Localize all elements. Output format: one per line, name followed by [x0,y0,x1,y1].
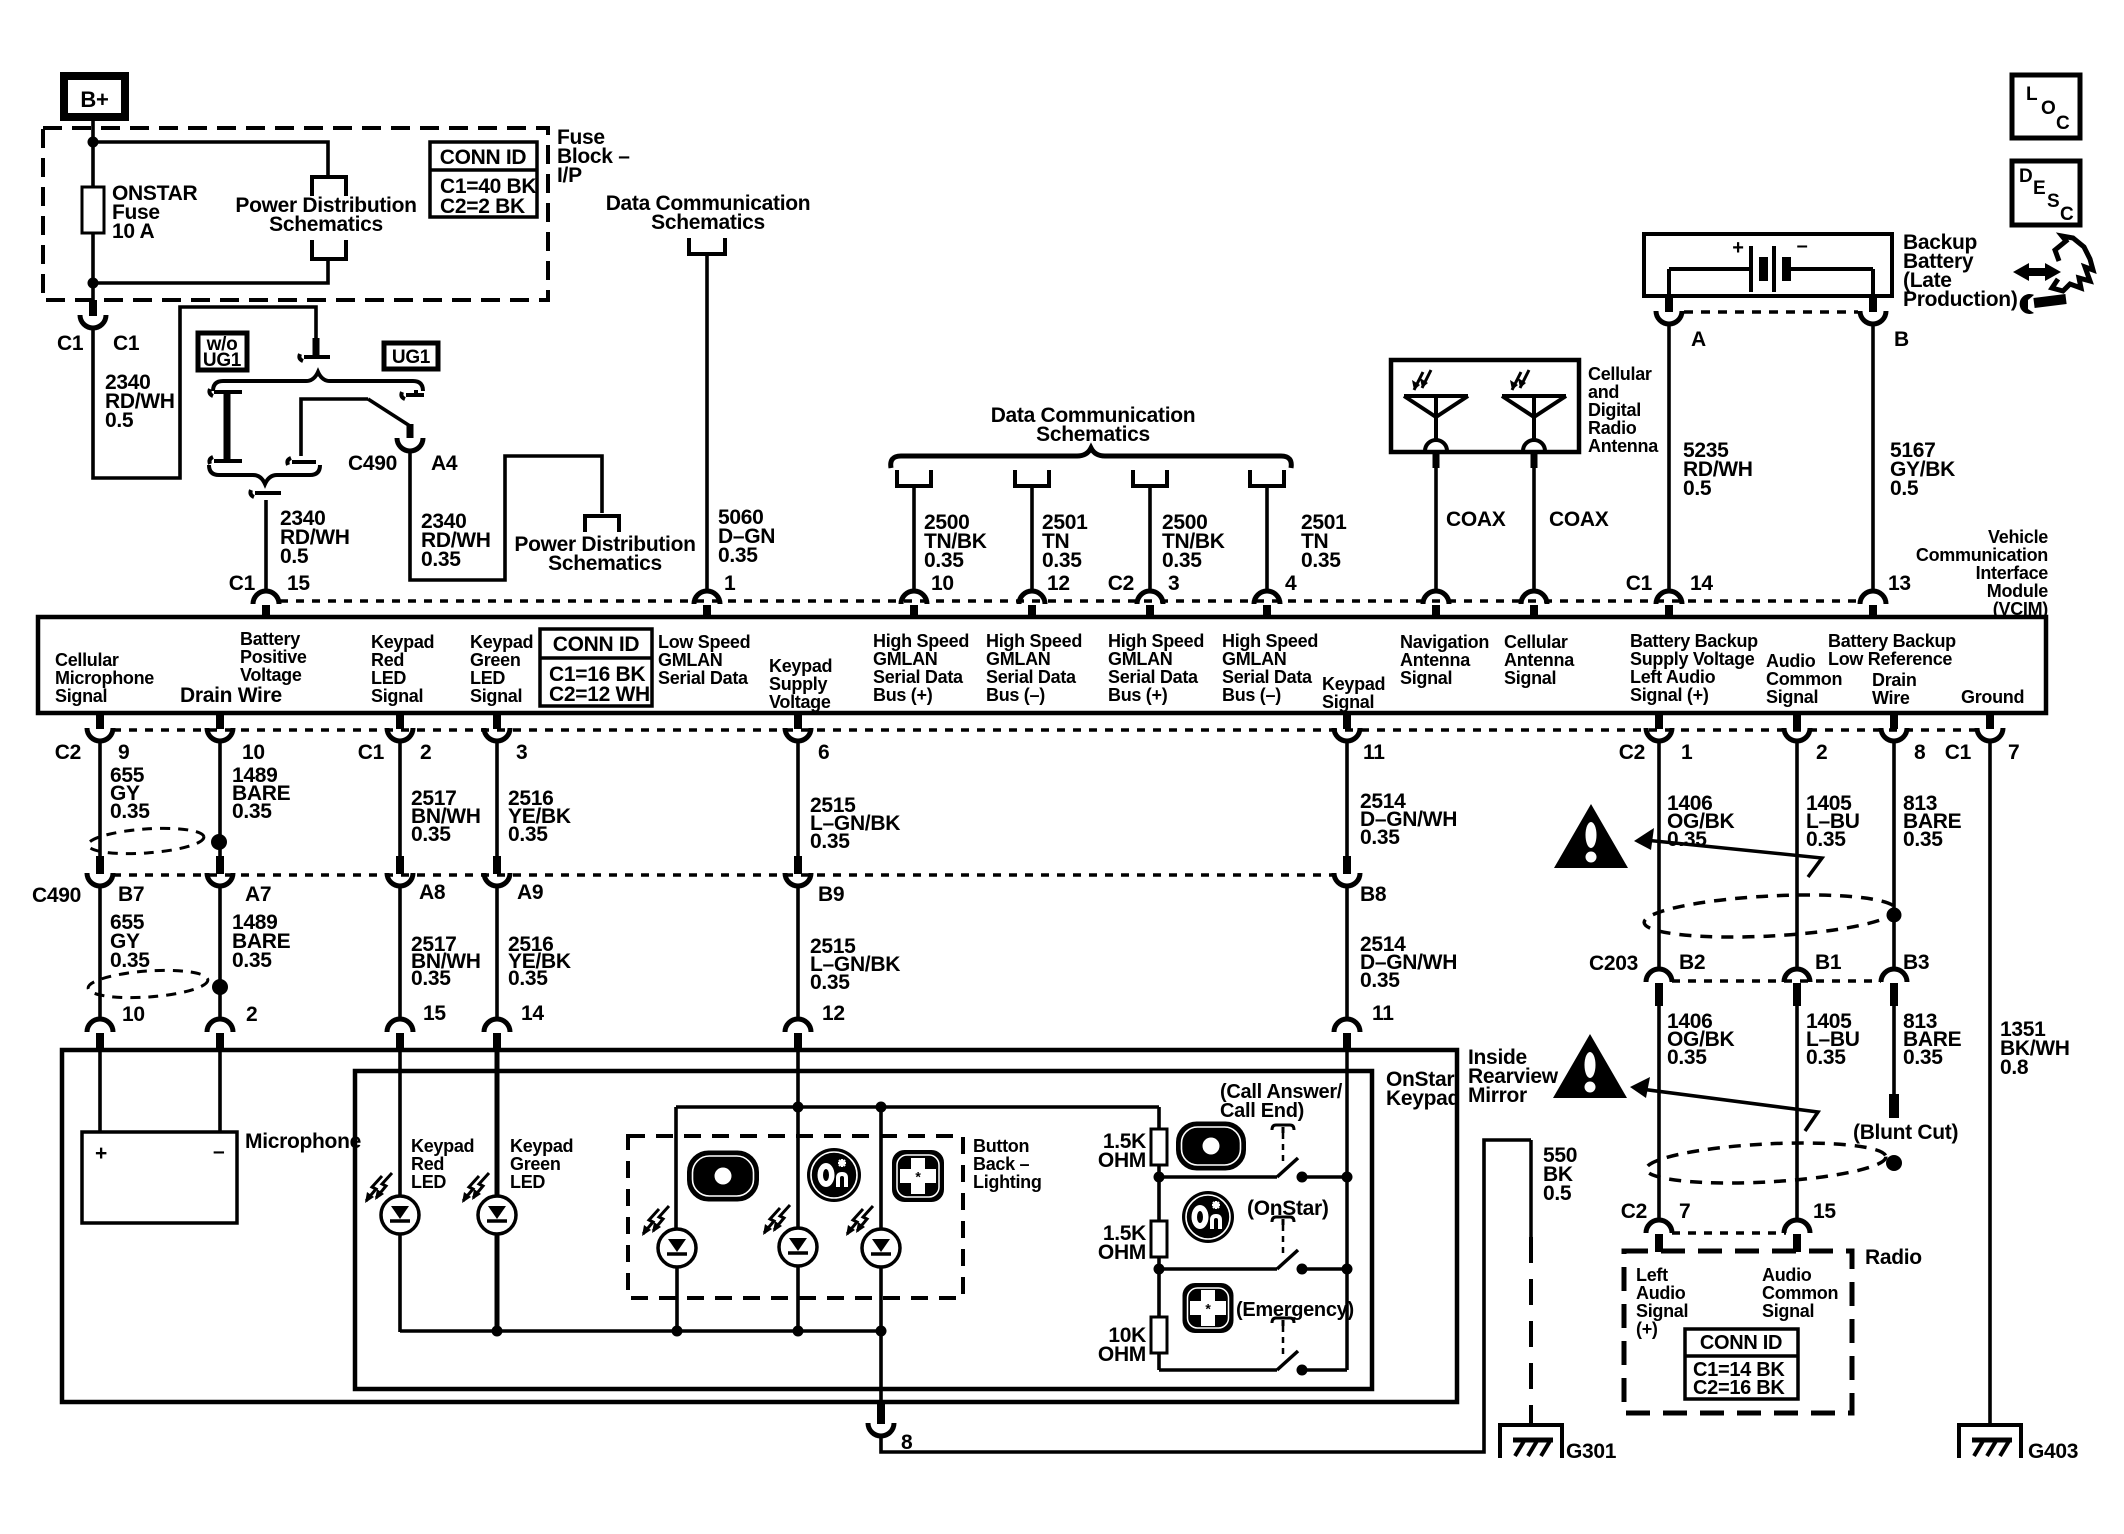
shield junction radio [1886,1155,1902,1171]
UG1 branch top connector [401,390,424,399]
wire row2-row3 x=400 [398,885,402,1019]
antenna box Cellular and Digital Radio [1391,360,1579,452]
connector C490 x=400 [396,856,404,874]
DESC reference box [2012,161,2080,225]
svg-text:Antenna: Antenna [1588,436,1659,456]
svg-text:B: B [1894,328,1909,351]
off-page symbol GMLAN drop 1 [897,470,931,486]
svg-text:Signal: Signal [1504,668,1556,688]
svg-text:Drain: Drain [1872,670,1917,690]
svg-text:(VCIM): (VCIM) [1993,599,2048,619]
svg-text:C203: C203 [1589,952,1638,975]
lightning arrows LED2 [764,1208,780,1233]
svg-text:Button: Button [973,1136,1029,1156]
wire R1 to junction [1157,1165,1161,1177]
svg-text:0.35: 0.35 [110,949,150,972]
svg-text:0.35: 0.35 [1301,549,1341,572]
svg-text:LED: LED [510,1172,545,1192]
svg-text:Signal: Signal [1762,1301,1814,1321]
svg-text:8: 8 [901,1431,913,1454]
svg-text:C2=16 BK: C2=16 BK [1693,1377,1785,1399]
svg-text:1: 1 [724,572,736,595]
resistor R1 1.5K [1151,1129,1167,1165]
svg-text:Common: Common [1766,669,1842,689]
OnStar keypad inner box [355,1071,1372,1389]
off-page symbol GMLAN drop 4 [1250,470,1284,486]
wire R3 to switch3 [1157,1353,1161,1370]
junction pin12 top bus [793,1102,804,1113]
svg-text:Ground: Ground [1961,687,2024,707]
svg-text:+: + [95,1142,107,1165]
wire switch3 to bus [1302,1368,1347,1372]
svg-text:C2: C2 [1621,1200,1647,1223]
fuse F1 ONSTAR 10A [82,187,104,233]
wire keypad red LED feed [398,1050,402,1196]
svg-text:0.35: 0.35 [1042,549,1082,572]
svg-text:10: 10 [931,572,954,595]
svg-text:11: 11 [1363,741,1385,764]
svg-text:Keypad: Keypad [470,632,533,652]
wire bus to resistor chain [1157,1107,1161,1129]
shield drain junction upper [211,834,227,850]
svg-text:GMLAN: GMLAN [658,650,723,670]
svg-text:Serial Data: Serial Data [986,667,1077,687]
svg-text:12: 12 [1047,572,1070,595]
svg-text:Bus (–): Bus (–) [1222,685,1281,705]
svg-text:7: 7 [1679,1200,1690,1223]
resistor R2 1.5K [1151,1221,1167,1257]
off-page symbol GMLAN drop 3 [1133,470,1167,486]
CONN ID box VCIM [540,629,652,706]
callout arrow upper [1634,828,1654,850]
connector row1 pin x=497 [493,711,501,729]
svg-text:C1: C1 [229,572,256,595]
svg-text:Serial Data: Serial Data [1222,667,1313,687]
svg-text:C2: C2 [1619,741,1645,764]
wire pin12 feed [796,1050,800,1228]
wire GMLAN drop 3 [1148,486,1152,591]
svg-text:Antenna: Antenna [1400,650,1471,670]
svg-text:0.35: 0.35 [1162,549,1202,572]
wire junction to R3 [1157,1269,1161,1317]
svg-text:Audio: Audio [1636,1283,1686,1303]
connector C490 x=1347 [1343,856,1351,874]
svg-text:LED: LED [371,668,406,688]
svg-text:C2=2 BK: C2=2 BK [440,195,525,218]
svg-text:Schematics: Schematics [548,552,662,575]
wire 5167 GY/BK [1871,324,1875,591]
button emergency [1183,1284,1233,1333]
svg-text:*: * [915,1169,921,1185]
backlight dashed box [628,1136,963,1298]
svg-text:0.35: 0.35 [1360,969,1400,992]
connector row1 pin x=100 [96,711,104,729]
svg-text:Left Audio: Left Audio [1630,667,1716,687]
svg-text:Cellular: Cellular [55,650,119,670]
connector radio x=1797 [1784,1220,1810,1233]
backlight LED3 [862,1229,900,1267]
connector keypad pin 8 [877,1402,885,1424]
wire GMLAN drop 2 [1030,486,1034,591]
svg-text:+: + [1732,237,1743,259]
svg-text:0.35: 0.35 [1360,826,1400,849]
svg-text:UG1: UG1 [392,347,431,368]
connector C490 x=100 [96,856,104,874]
wire switch1 row [1159,1175,1277,1179]
CONN ID box radio [1685,1329,1798,1399]
resistor R3 10K [1151,1317,1167,1353]
svg-text:Mirror: Mirror [1468,1084,1527,1107]
connector C203 x=1894 [1881,969,1907,982]
svg-text:Production): Production) [1903,288,2018,311]
svg-text:Bus (+): Bus (+) [873,685,933,705]
svg-text:A: A [1691,328,1706,351]
svg-text:0.35: 0.35 [1806,1046,1846,1069]
wire 5060 D-GN [705,254,709,591]
shield drain junction lower [212,979,228,995]
keypad red LED [381,1196,419,1234]
wire 2340 RD/WH jog to splice [93,307,316,478]
svg-text:Navigation: Navigation [1400,632,1489,652]
wire 1405 C203-radio [1795,1006,1799,1221]
brace data communication [891,448,1292,468]
svg-text:Battery: Battery [240,629,300,649]
svg-text:7: 7 [2008,741,2019,764]
svg-text:10: 10 [242,741,265,764]
junction keypad bus 1 [1342,1172,1353,1183]
UG1 tap lower connector [287,458,316,465]
svg-text:GMLAN: GMLAN [1222,649,1287,669]
svg-text:Common: Common [1762,1283,1838,1303]
svg-text:13: 13 [1888,572,1911,595]
dashed connector line radio [1672,1231,1786,1235]
svg-text:High Speed: High Speed [873,631,969,651]
svg-text:Cellular: Cellular [1588,364,1652,384]
wire GMLAN drop 1 [912,486,916,591]
svg-text:14: 14 [1690,572,1713,595]
svg-text:Supply Voltage: Supply Voltage [1630,649,1755,669]
svg-text:0.5: 0.5 [1683,477,1712,500]
svg-text:3: 3 [516,741,527,764]
svg-text:Vehicle: Vehicle [1988,527,2048,547]
LED return bus [400,1329,881,1333]
svg-text:Lighting: Lighting [973,1172,1042,1192]
svg-text:11: 11 [1372,1002,1394,1025]
svg-text:Antenna: Antenna [1504,650,1575,670]
svg-text:C1: C1 [113,332,140,355]
wire power-distribution return [93,259,328,283]
antenna lead 2 [1531,453,1538,468]
svg-text:Schematics: Schematics [269,213,383,236]
wire row1-row2 x=798 [796,741,800,856]
svg-text:Wire: Wire [1872,688,1910,708]
junction R1 bottom [1154,1172,1165,1183]
svg-text:0.35: 0.35 [1903,828,1943,851]
svg-text:C1: C1 [57,332,84,355]
svg-text:(Blunt Cut): (Blunt Cut) [1853,1121,1958,1144]
connector C490 A4 [407,424,414,438]
svg-text:Signal: Signal [1766,687,1818,707]
svg-text:0.35: 0.35 [1806,828,1846,851]
shield ellipse radio pair [1645,1138,1887,1189]
wire 550 BK dashed to ground [1529,1140,1533,1237]
svg-text:A8: A8 [419,881,446,904]
svg-text:Positive: Positive [240,647,307,667]
svg-text:–: – [1797,235,1808,257]
dashed connector line C203 [1672,979,1881,983]
backlight LED2 [779,1228,817,1266]
svg-text:Radio: Radio [1865,1246,1922,1269]
connector A backup battery [1665,296,1673,312]
lightning arrows LED1 [643,1209,659,1234]
connector VCIM top pin x=1534 [1521,591,1547,604]
wire 2340 RD/WH A4 loop to power distribution [410,450,602,580]
svg-text:High Speed: High Speed [986,631,1082,651]
svg-text:and: and [1588,382,1619,402]
svg-text:C2=12 WH: C2=12 WH [549,683,650,706]
svg-text:(Emergency): (Emergency) [1236,1299,1354,1321]
svg-text:Drain Wire: Drain Wire [180,684,282,707]
connector row1 pin x=1347 [1343,711,1351,729]
backlight button onstar [807,1148,861,1202]
svg-text:LED: LED [470,668,505,688]
svg-text:Green: Green [470,650,521,670]
svg-text:Left: Left [1636,1265,1668,1285]
splice bottom connector [250,490,281,497]
connector row1 pin x=1659 [1655,711,1663,729]
junction green LED bus [492,1326,503,1337]
svg-text:Bus (+): Bus (+) [1108,685,1168,705]
connector device x=100 [87,1019,113,1032]
connector C203 x=1659 [1646,969,1672,982]
shield ellipse microphone (upper) [87,825,204,857]
switch emergency [1277,1351,1298,1370]
off-page symbol Power Distribution Schematics (A4) [585,516,619,532]
wire fuse-top to power-distribution tap [93,142,328,176]
svg-text:Serial Data: Serial Data [1108,667,1199,687]
svg-text:Audio: Audio [1766,651,1816,671]
svg-text:Signal: Signal [470,686,522,706]
svg-text:15: 15 [287,572,310,595]
svg-text:0.35: 0.35 [1903,1046,1943,1069]
option box UG1 [384,343,438,369]
svg-text:0.35: 0.35 [232,949,272,972]
connector VCIM top pin x=1669 [1656,591,1682,604]
svg-text:CONN ID: CONN ID [440,146,527,169]
svg-text:0.35: 0.35 [1667,828,1707,851]
svg-text:L: L [2026,84,2038,105]
wire LED1 to bus [675,1267,679,1332]
warning triangle lower [1553,1034,1627,1098]
wire junction to R2 [1157,1177,1161,1221]
svg-text:C490: C490 [348,452,397,475]
wire switch2 to bus [1302,1267,1347,1271]
node B+ battery feed terminal [64,76,125,117]
junction fuse top [88,137,99,148]
svg-text:Radio: Radio [1588,418,1637,438]
svg-text:Signal (+): Signal (+) [1630,685,1709,705]
svg-text:C1: C1 [1626,572,1653,595]
svg-text:A7: A7 [245,883,271,906]
svg-text:G301: G301 [1566,1440,1617,1463]
wire green LED to bus [495,1234,500,1332]
connector VCIM top pin x=707 [694,591,720,604]
svg-text:9: 9 [118,741,129,764]
svg-text:High Speed: High Speed [1222,631,1318,651]
ground G403 [1959,1425,2021,1458]
svg-text:OHM: OHM [1098,1343,1146,1366]
svg-text:0.8: 0.8 [2000,1056,2029,1079]
dashed connector line A-B [1684,310,1858,314]
microphone box [82,1132,237,1223]
svg-text:0.35: 0.35 [110,800,150,823]
connector VCIM top pin x=1267 [1254,591,1280,604]
svg-text:3: 3 [1168,572,1179,595]
svg-text:G403: G403 [2028,1440,2078,1463]
svg-text:10 A: 10 A [112,220,155,243]
shield junction 813 upper [1887,908,1902,923]
svg-text:C: C [2056,113,2070,134]
svg-text:Battery Backup: Battery Backup [1630,631,1758,651]
svg-text:0.35: 0.35 [421,548,461,571]
wire LED3 drop [879,1107,883,1229]
antenna symbol 2 [1502,394,1566,398]
svg-text:Signal: Signal [371,686,423,706]
connector C490 x=497 [493,856,501,874]
svg-text:8: 8 [1914,741,1926,764]
svg-text:OHM: OHM [1098,1241,1146,1264]
svg-text:Audio: Audio [1762,1265,1812,1285]
svg-text:Back –: Back – [973,1154,1030,1174]
svg-text:Schematics: Schematics [1036,423,1150,446]
lightning arrows red LED [366,1176,382,1201]
svg-text:B3: B3 [1903,951,1929,974]
svg-text:Signal: Signal [1636,1301,1688,1321]
svg-text:Keypad: Keypad [1322,674,1385,694]
wire row2-row3 x=798 [796,885,800,1019]
junction R2 bottom [1154,1264,1165,1275]
svg-text:Digital: Digital [1588,400,1641,420]
svg-text:Microphone: Microphone [245,1130,361,1153]
wire 1406 C203-radio [1657,1006,1661,1221]
svg-text:0.35: 0.35 [508,967,548,990]
svg-text:LED: LED [411,1172,446,1192]
svg-text:C1: C1 [358,741,385,764]
wire row2-row3 x=100 [98,885,102,1019]
svg-text:2: 2 [1816,741,1827,764]
wire 813 blunt cut [1892,1006,1896,1094]
svg-text:Bus (–): Bus (–) [986,685,1045,705]
connector device x=1347 [1334,1019,1360,1032]
inline connector at splice top [313,338,320,356]
wire switch2 row [1159,1267,1277,1271]
connector B backup battery [1869,296,1877,312]
backlight button call [688,1151,759,1201]
svg-text:GMLAN: GMLAN [1108,649,1173,669]
svg-text:OHM: OHM [1098,1149,1146,1172]
svg-text:Keypad: Keypad [510,1136,573,1156]
svg-text:0.35: 0.35 [411,823,451,846]
connector C1 below fuse block [89,300,97,316]
wire mic - lead [218,1050,222,1132]
svg-text:B9: B9 [818,883,844,906]
wire 813 BARE row1-C203 [1892,741,1896,969]
junction LED2 bus [793,1326,804,1337]
connector row1 pin x=220 [216,711,224,729]
shield ellipse VCIM audio [1643,889,1897,942]
ground G301 [1500,1425,1562,1458]
svg-text:Low Speed: Low Speed [658,632,750,652]
connector VCIM top pin x=266 [253,591,279,604]
off-page symbol Data Communication (left) [689,238,725,254]
svg-text:Signal: Signal [55,686,107,706]
svg-text:Module: Module [1987,581,2048,601]
svg-text:Signal: Signal [1322,692,1374,712]
svg-text:D: D [2019,166,2032,187]
svg-text:I/P: I/P [557,164,582,187]
connector device x=220 [207,1019,233,1032]
wire backlight LED1 [674,1107,678,1229]
wire 550 BK path from keypad pin8 [881,1140,1531,1452]
connector device x=400 [387,1019,413,1032]
w/o-UG1 branch inline connector [209,389,242,396]
connector C203 x=1797 [1784,969,1810,982]
wire keypad green LED feed [495,1050,500,1196]
connector VCIM top pin x=1873 [1860,591,1886,604]
connector row1 pin x=798 [794,711,802,729]
brace splice top (UG1 options) [213,372,423,391]
svg-text:Voltage: Voltage [769,692,831,712]
off-page symbol Power Distribution (bottom) [312,240,346,259]
connector row1 pin x=1797 [1793,711,1801,729]
wire B+ to fuse [91,117,95,187]
junction keypad bus 2 [1342,1264,1353,1275]
svg-text:0.35: 0.35 [810,971,850,994]
svg-text:Red: Red [371,650,404,670]
wire mic + lead [98,1050,102,1132]
switch onstar [1277,1250,1298,1269]
svg-text:Schematics: Schematics [651,211,765,234]
svg-text:O: O [2041,98,2055,119]
wire 1406 OG/BK row1-C203 [1657,741,1661,969]
wire R2 to junction [1157,1257,1161,1269]
VCIM module box [38,617,2046,713]
backup battery box [1644,234,1892,296]
svg-text:0.5: 0.5 [105,409,134,432]
button onstar [1182,1191,1234,1243]
wire row1-row2 x=1347 [1345,741,1349,856]
wire row1-row2 x=400 [398,741,402,856]
wire fuse to C1 connector [91,233,95,302]
svg-text:CONN ID: CONN ID [1700,1332,1782,1354]
svg-text:1: 1 [1681,741,1693,764]
switch call answer [1277,1158,1298,1177]
dashed connector line row1 [113,728,1977,732]
svg-text:(+): (+) [1636,1319,1658,1339]
wire LED3 to pin8 [879,1267,883,1404]
junction LED3 bus [876,1326,887,1337]
svg-text:0.35: 0.35 [411,967,451,990]
lightning arrows LED3 [847,1209,863,1234]
outer enclosure box [62,1050,1457,1402]
svg-text:Serial Data: Serial Data [658,668,749,688]
CONN ID box fuse block [430,142,537,217]
radio dashed box [1624,1251,1852,1413]
svg-text:0.5: 0.5 [280,545,309,568]
svg-text:0.35: 0.35 [508,823,548,846]
wire row2-row3 x=220 [218,885,222,1019]
svg-text:Communication: Communication [1916,545,2048,565]
